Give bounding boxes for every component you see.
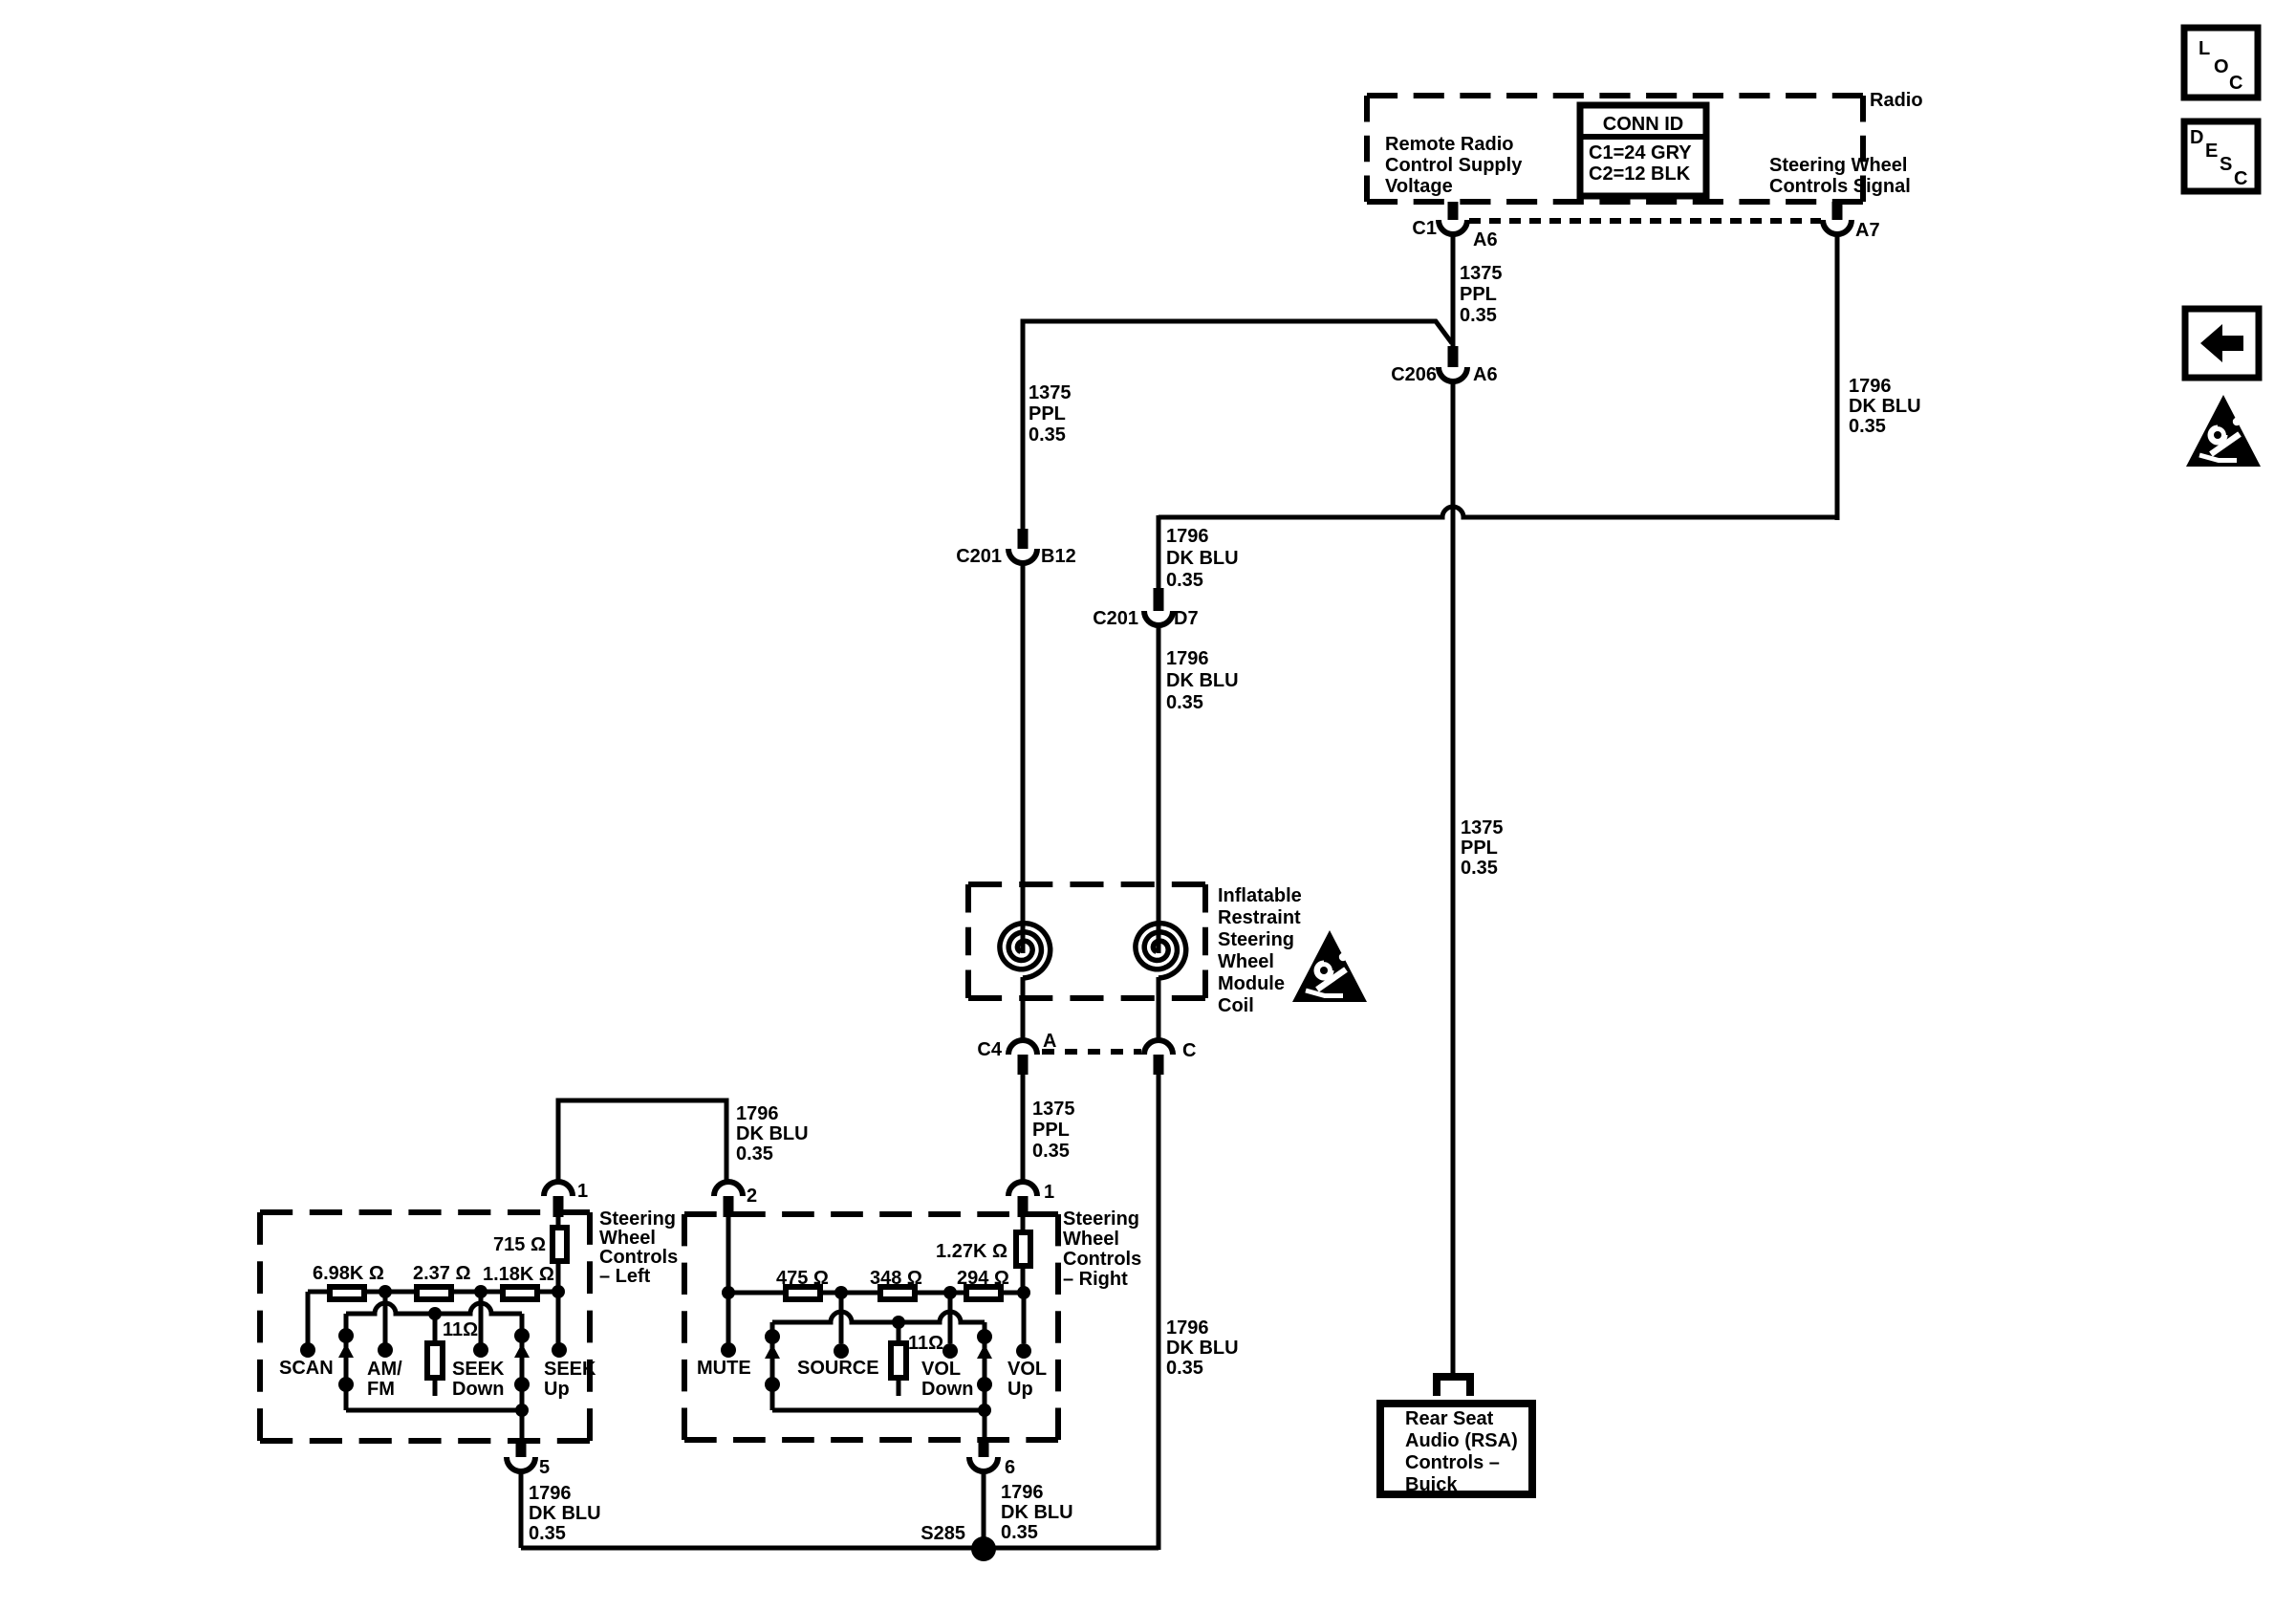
wire 1.27K junction to VOL Up contact bbox=[1022, 1293, 1027, 1343]
svg-text:DK BLU: DK BLU bbox=[1166, 670, 1239, 691]
wire D7 to coil bbox=[1157, 625, 1161, 923]
svg-text:348 Ω: 348 Ω bbox=[870, 1268, 922, 1289]
svg-text:Up: Up bbox=[1007, 1379, 1033, 1400]
wire pin 6 to S285 bbox=[982, 1471, 986, 1548]
svg-text:1375: 1375 bbox=[1032, 1099, 1075, 1120]
svg-text:Restraint: Restraint bbox=[1218, 907, 1301, 928]
svg-text:C: C bbox=[1182, 1040, 1196, 1061]
svg-text:0.35: 0.35 bbox=[1001, 1522, 1038, 1543]
svg-text:B12: B12 bbox=[1041, 546, 1076, 567]
connector C4 pin A bbox=[1008, 1040, 1037, 1055]
switch common loop (left) bbox=[346, 1303, 522, 1314]
wire pin 5 to S285 bbox=[519, 1471, 524, 1548]
dashed connector line C1 to A7 bbox=[1469, 218, 1821, 224]
wire 1375 PPL (C1 to C206) bbox=[1451, 234, 1456, 346]
node D (right chain) bbox=[943, 1286, 957, 1299]
wire loop to pin 5 bbox=[520, 1410, 525, 1442]
wire node B to SEEK Down contact bbox=[479, 1292, 484, 1343]
svg-text:1.18K Ω: 1.18K Ω bbox=[483, 1264, 554, 1285]
svg-text:C206: C206 bbox=[1391, 364, 1437, 385]
component box Steering Wheel Controls - Left (dashed) bbox=[260, 1209, 590, 1215]
svg-text:Module: Module bbox=[1218, 973, 1285, 994]
node loop bottom / pin 5 bbox=[515, 1404, 529, 1417]
wire C down to S285 bbox=[1157, 1075, 1161, 1550]
splice S285 bbox=[971, 1536, 996, 1561]
svg-text:PPL: PPL bbox=[1029, 403, 1066, 425]
svg-text:A6: A6 bbox=[1473, 229, 1498, 250]
wire branch to C201 B12 bbox=[1023, 321, 1452, 529]
svg-text:1796: 1796 bbox=[1166, 1317, 1209, 1339]
svg-text:AM/: AM/ bbox=[367, 1359, 402, 1380]
wire node C to SOURCE contact bbox=[839, 1293, 844, 1343]
svg-text:Controls –: Controls – bbox=[1405, 1452, 1500, 1473]
icon LOC box bbox=[2184, 28, 2258, 98]
svg-text:Controls Signal: Controls Signal bbox=[1769, 176, 1911, 197]
connector C201 pin D7 bbox=[1154, 588, 1164, 611]
svg-text:294 Ω: 294 Ω bbox=[957, 1268, 1009, 1289]
svg-text:C1: C1 bbox=[1412, 218, 1437, 239]
contact MUTE bbox=[721, 1342, 736, 1358]
svg-text:PPL: PPL bbox=[1460, 284, 1497, 305]
wire 1796 DK BLU (A7 down/left to C201 D7) bbox=[1835, 234, 1840, 520]
wire loop to pin 6 bbox=[983, 1410, 987, 1442]
connector C206 pin A6 bbox=[1448, 346, 1459, 367]
svg-text:D7: D7 bbox=[1174, 608, 1199, 629]
svg-text:PPL: PPL bbox=[1461, 838, 1498, 859]
switch arm VOL Up (right loop side) bbox=[983, 1322, 987, 1410]
svg-text:0.35: 0.35 bbox=[1166, 570, 1203, 591]
svg-text:C201: C201 bbox=[1093, 608, 1138, 629]
switch arm SEEK Up (right loop side) bbox=[520, 1314, 525, 1410]
svg-text:1796: 1796 bbox=[529, 1483, 572, 1504]
svg-text:0.35: 0.35 bbox=[1460, 305, 1497, 326]
svg-text:Wheel: Wheel bbox=[1063, 1229, 1119, 1250]
svg-text:DK BLU: DK BLU bbox=[1849, 396, 1921, 417]
node loop top / 11 ohm bbox=[428, 1307, 442, 1320]
wire resistor chain (right) bbox=[728, 1291, 1024, 1295]
svg-text:1796: 1796 bbox=[1166, 526, 1209, 547]
component box Radio (dashed) bbox=[1367, 93, 1863, 98]
svg-text:L: L bbox=[2199, 38, 2210, 59]
svg-text:6.98K Ω: 6.98K Ω bbox=[313, 1263, 384, 1284]
svg-text:1375: 1375 bbox=[1460, 263, 1503, 284]
wire 1375 PPL (C206 to RSA) bbox=[1451, 381, 1456, 1375]
node loop bottom / pin 6 bbox=[978, 1404, 991, 1417]
svg-text:Steering Wheel: Steering Wheel bbox=[1769, 155, 1907, 176]
svg-text:Wheel: Wheel bbox=[599, 1228, 656, 1249]
svg-text:DK BLU: DK BLU bbox=[1166, 548, 1239, 569]
svg-text:C2=12 BLK: C2=12 BLK bbox=[1589, 163, 1691, 185]
wire node D to VOL Down contact bbox=[948, 1293, 953, 1343]
icon DESC box bbox=[2184, 121, 2258, 191]
svg-text:1375: 1375 bbox=[1461, 817, 1504, 838]
svg-text:MUTE: MUTE bbox=[697, 1358, 751, 1379]
svg-text:0.35: 0.35 bbox=[1166, 692, 1203, 713]
wire splice bus bbox=[521, 1546, 1159, 1551]
svg-text:Steering: Steering bbox=[1218, 929, 1294, 950]
svg-text:1375: 1375 bbox=[1029, 382, 1072, 403]
svg-text:SOURCE: SOURCE bbox=[797, 1358, 879, 1379]
svg-text:D: D bbox=[2190, 127, 2203, 148]
contact SEEK Down bbox=[473, 1342, 488, 1358]
svg-text:Down: Down bbox=[452, 1379, 504, 1400]
resistor 1.27K ohm bbox=[1021, 1217, 1026, 1231]
svg-text:Steering: Steering bbox=[1063, 1208, 1139, 1230]
wire pin 2 to chain and MUTE bbox=[726, 1217, 731, 1343]
svg-text:1: 1 bbox=[577, 1181, 588, 1202]
svg-text:475 Ω: 475 Ω bbox=[776, 1268, 829, 1289]
svg-text:Down: Down bbox=[921, 1379, 973, 1400]
node pin2/chain bbox=[722, 1286, 735, 1299]
svg-text:1: 1 bbox=[1044, 1182, 1054, 1203]
contact SOURCE bbox=[834, 1343, 849, 1359]
svg-text:Remote Radio: Remote Radio bbox=[1385, 134, 1513, 155]
switch arm SCAN (left loop side) bbox=[344, 1314, 349, 1410]
node chain/1.27K junction bbox=[1017, 1286, 1030, 1299]
svg-text:A7: A7 bbox=[1855, 220, 1880, 241]
table CONN ID bbox=[1580, 105, 1706, 196]
svg-text:Controls: Controls bbox=[599, 1247, 678, 1268]
resistor 11 ohm (right) bbox=[897, 1322, 901, 1340]
svg-text:Buick: Buick bbox=[1405, 1474, 1458, 1495]
svg-text:Audio (RSA): Audio (RSA) bbox=[1405, 1430, 1518, 1451]
warning icon SRS triangle (sidebar) bbox=[2186, 395, 2261, 467]
svg-text:C: C bbox=[2229, 73, 2242, 94]
switch arm MUTE/SOURCE (left loop side) bbox=[770, 1322, 775, 1410]
contact SEEK Up bbox=[552, 1342, 567, 1358]
connector pin 1 (left box) bbox=[544, 1182, 573, 1196]
connector C (coil) bbox=[1144, 1040, 1173, 1055]
node C (right chain) bbox=[834, 1286, 848, 1299]
node A (left chain) bbox=[379, 1285, 392, 1298]
resistor 715 ohm bbox=[556, 1217, 561, 1227]
svg-text:5: 5 bbox=[539, 1457, 550, 1478]
svg-text:0.35: 0.35 bbox=[1461, 858, 1498, 879]
contact AM/FM bbox=[378, 1342, 393, 1358]
svg-text:PPL: PPL bbox=[1032, 1120, 1070, 1141]
component box Rear Seat Audio (RSA) Controls - Buick bbox=[1380, 1404, 1532, 1494]
svg-text:– Right: – Right bbox=[1063, 1269, 1128, 1290]
contact VOL Down bbox=[942, 1343, 958, 1359]
warning icon SRS triangle (coil) bbox=[1292, 930, 1367, 1002]
component box Steering Wheel Controls - Right (dashed) bbox=[684, 1211, 1058, 1217]
svg-text:DK BLU: DK BLU bbox=[1001, 1502, 1073, 1523]
svg-text:1796: 1796 bbox=[1849, 376, 1892, 397]
resistor 1.18K ohm bbox=[503, 1287, 537, 1299]
svg-text:C1=24 GRY: C1=24 GRY bbox=[1589, 142, 1692, 163]
component box Inflatable Restraint Steering Wheel Module Coil (dashed) bbox=[968, 882, 1205, 887]
svg-text:Up: Up bbox=[544, 1379, 570, 1400]
svg-text:0.35: 0.35 bbox=[1029, 425, 1066, 446]
connector C201 pin B12 bbox=[1018, 529, 1029, 549]
contact SCAN bbox=[300, 1342, 315, 1358]
svg-text:C201: C201 bbox=[956, 546, 1002, 567]
wire B12 to coil bbox=[1021, 563, 1026, 923]
svg-text:Controls: Controls bbox=[1063, 1249, 1141, 1270]
svg-text:Coil: Coil bbox=[1218, 995, 1254, 1016]
connector pin 1 (right box) bbox=[1008, 1182, 1037, 1196]
svg-text:1.27K Ω: 1.27K Ω bbox=[936, 1241, 1007, 1262]
dashed connector line C4 to C bbox=[1042, 1049, 1141, 1055]
wire 715 junction to SEEK Up contact bbox=[556, 1292, 561, 1343]
svg-text:Control Supply: Control Supply bbox=[1385, 155, 1523, 176]
svg-text:0.35: 0.35 bbox=[1166, 1358, 1203, 1379]
contact VOL Up bbox=[1016, 1343, 1031, 1359]
connector pin 2 bbox=[714, 1182, 743, 1196]
resistor 11 ohm (left) bbox=[433, 1314, 438, 1340]
svg-text:Voltage: Voltage bbox=[1385, 176, 1453, 197]
svg-text:2: 2 bbox=[747, 1186, 757, 1207]
svg-text:2.37 Ω: 2.37 Ω bbox=[413, 1263, 471, 1284]
svg-text:Radio: Radio bbox=[1870, 90, 1923, 111]
svg-text:Rear Seat: Rear Seat bbox=[1405, 1408, 1494, 1429]
connector C1 pin A6 bbox=[1448, 202, 1459, 220]
switch common loop (right) bbox=[772, 1312, 985, 1322]
svg-text:SCAN: SCAN bbox=[279, 1358, 334, 1379]
svg-text:Inflatable: Inflatable bbox=[1218, 885, 1302, 906]
svg-text:E: E bbox=[2205, 141, 2218, 162]
svg-text:DK BLU: DK BLU bbox=[529, 1503, 601, 1524]
svg-text:0.35: 0.35 bbox=[736, 1143, 773, 1165]
wire resistor chain (left) bbox=[308, 1290, 558, 1295]
wire 1796 DK BLU (left pin 1 to right pin 2) bbox=[558, 1100, 726, 1184]
svg-text:0.35: 0.35 bbox=[529, 1523, 566, 1544]
svg-text:CONN ID: CONN ID bbox=[1603, 114, 1683, 135]
svg-text:A: A bbox=[1043, 1031, 1056, 1052]
resistor 294 ohm bbox=[966, 1287, 1001, 1299]
svg-text:DK BLU: DK BLU bbox=[1166, 1338, 1239, 1359]
svg-text:11Ω: 11Ω bbox=[443, 1319, 478, 1340]
node loop top / 11 ohm (right) bbox=[892, 1316, 905, 1329]
svg-text:11Ω: 11Ω bbox=[908, 1333, 943, 1354]
svg-text:1796: 1796 bbox=[736, 1103, 779, 1124]
resistor 348 ohm bbox=[880, 1287, 915, 1299]
wire C4 to right box pin 1 bbox=[1021, 1075, 1026, 1184]
svg-text:715 Ω: 715 Ω bbox=[493, 1234, 546, 1255]
svg-text:SEEK: SEEK bbox=[544, 1359, 596, 1380]
svg-text:A6: A6 bbox=[1473, 364, 1498, 385]
svg-text:FM: FM bbox=[367, 1379, 395, 1400]
icon back-arrow box bbox=[2185, 309, 2259, 378]
connector RSA (bracket) bbox=[1437, 1377, 1470, 1396]
svg-text:1796: 1796 bbox=[1001, 1482, 1044, 1503]
svg-text:0.35: 0.35 bbox=[1032, 1141, 1070, 1162]
resistor 2.37 ohm bbox=[417, 1287, 451, 1299]
connector pin 6 bbox=[979, 1442, 989, 1457]
resistor 6.98K ohm bbox=[330, 1287, 364, 1299]
resistor 475 ohm bbox=[786, 1287, 820, 1299]
connector A7 bbox=[1832, 202, 1843, 220]
svg-text:S: S bbox=[2220, 154, 2232, 175]
svg-text:O: O bbox=[2214, 56, 2229, 77]
coil right (clockspring) bbox=[1157, 884, 1161, 953]
svg-text:Wheel: Wheel bbox=[1218, 951, 1274, 972]
svg-text:SEEK: SEEK bbox=[452, 1359, 505, 1380]
svg-text:VOL: VOL bbox=[1007, 1359, 1047, 1380]
svg-text:S285: S285 bbox=[921, 1523, 965, 1544]
svg-text:0.35: 0.35 bbox=[1849, 416, 1886, 437]
svg-text:C4: C4 bbox=[977, 1039, 1002, 1060]
svg-text:Steering: Steering bbox=[599, 1208, 676, 1230]
svg-text:6: 6 bbox=[1005, 1457, 1015, 1478]
connector pin 5 bbox=[516, 1442, 527, 1457]
node chain/715 junction bbox=[552, 1285, 565, 1298]
svg-text:VOL: VOL bbox=[921, 1359, 961, 1380]
svg-text:C: C bbox=[2234, 168, 2247, 189]
svg-text:DK BLU: DK BLU bbox=[736, 1123, 809, 1144]
svg-text:1796: 1796 bbox=[1166, 648, 1209, 669]
node B (left chain) bbox=[474, 1285, 487, 1298]
svg-text:– Left: – Left bbox=[599, 1266, 651, 1287]
coil left (clockspring) bbox=[1021, 884, 1026, 953]
wire node A to AM/FM contact bbox=[383, 1292, 388, 1343]
